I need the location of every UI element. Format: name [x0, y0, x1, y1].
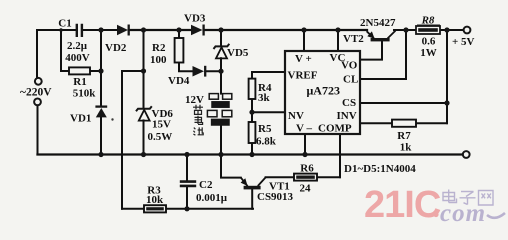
wire INV pin to R7 — [360, 122, 392, 124]
junction dots top rail — [59, 27, 449, 32]
svg-text:μA723: μA723 — [307, 84, 340, 98]
svg-text:VT2: VT2 — [343, 33, 364, 45]
svg-text:R7: R7 — [397, 130, 411, 142]
svg-text:VD5: VD5 — [227, 47, 249, 59]
svg-text:CS9013: CS9013 — [257, 191, 294, 203]
wire CL pin to R8 left — [360, 30, 406, 79]
svg-text:VD2: VD2 — [105, 42, 127, 54]
svg-text:2N5427: 2N5427 — [360, 17, 396, 29]
capacitor C2 — [180, 182, 196, 186]
svg-text:CS: CS — [342, 97, 356, 109]
resistor R7 — [392, 120, 416, 127]
svg-text:1W: 1W — [420, 47, 437, 59]
wire VD2 out down to VD6 — [143, 30, 145, 108]
resistor R6 — [294, 174, 317, 181]
resistor R8 — [416, 26, 440, 34]
svg-text:VD4: VD4 — [168, 75, 190, 87]
svg-text:C1: C1 — [58, 18, 71, 30]
wire R2 bottom to VD4 — [179, 63, 193, 72]
wire top rail segment left — [37, 29, 76, 31]
diode VD4 — [193, 66, 206, 77]
svg-text:R2: R2 — [152, 42, 166, 54]
wire C2 bottom lead — [186, 187, 188, 209]
wire CS pin — [360, 102, 447, 104]
wire VREF to R4 — [252, 72, 285, 79]
wire C2 top lead — [186, 155, 188, 181]
svg-text:R1: R1 — [73, 76, 86, 88]
zener diode VD6 — [136, 106, 152, 120]
capacitor C1 — [77, 24, 82, 37]
output terminal positive — [464, 27, 471, 34]
wire top rail after VD3 to VT2 emitter — [205, 29, 368, 31]
wire VD5 bottom lead — [220, 58, 222, 71]
wire battery top lead — [220, 71, 222, 93]
resistor R3 — [144, 205, 166, 212]
svg-text:21IC: 21IC — [364, 184, 441, 226]
wire VD5 top lead — [220, 30, 222, 46]
wire R1 right to node — [90, 70, 101, 72]
wire V- pin lead — [304, 134, 306, 155]
wire VD4 cathode to node — [207, 70, 222, 72]
wire R1 bypass left — [61, 30, 69, 71]
svg-text:0.5W: 0.5W — [148, 131, 173, 143]
diode VD3 — [191, 25, 204, 36]
svg-text:0.6: 0.6 — [422, 36, 436, 48]
resistor R1 — [69, 67, 90, 74]
zener diode VD5 — [214, 44, 230, 59]
wire lower R3 line — [122, 208, 144, 210]
wire node column x101 — [100, 30, 102, 106]
wire R8 to output terminal — [440, 29, 463, 31]
wire output sense vertical — [446, 30, 448, 123]
output terminal negative — [463, 151, 470, 158]
wire NV pin lead — [252, 111, 285, 113]
svg-text:6.8k: 6.8k — [256, 136, 277, 148]
svg-text:C2: C2 — [199, 179, 213, 191]
AC input terminal lower — [34, 99, 41, 106]
resistor R4 — [249, 79, 256, 99]
wire VT2 base lead — [360, 41, 382, 59]
svg-text:12V: 12V — [185, 94, 204, 106]
wire left input drop — [36, 30, 38, 78]
wire R4 to R5 column — [251, 99, 253, 122]
wire battery bottom lead — [220, 125, 222, 154]
svg-text:V +: V + — [295, 53, 312, 65]
wire top rail VT2 collector to R8 — [394, 29, 416, 31]
wire top rail after C1 — [82, 29, 117, 31]
svg-text:INV: INV — [337, 110, 357, 122]
battery GB 12V — [207, 94, 231, 125]
watermark dot — [433, 212, 438, 217]
wire V+ pin lead — [303, 30, 305, 51]
junction dots middle — [98, 68, 449, 211]
svg-text:R5: R5 — [258, 123, 272, 135]
svg-text:VO: VO — [341, 60, 358, 72]
wire VD1 cathode to bottom rail — [100, 118, 102, 155]
transistor VT1 CS9013 — [241, 177, 266, 189]
wire branch to R3 — [122, 71, 144, 209]
svg-text:COMP: COMP — [318, 123, 352, 135]
svg-text:VD1: VD1 — [70, 113, 91, 125]
AC input terminal upper — [35, 78, 42, 85]
svg-text:1k: 1k — [400, 142, 413, 154]
diode VD2 — [117, 25, 129, 36]
wire VT1 emitter branch — [221, 155, 241, 178]
resistor R2 — [175, 38, 184, 63]
wire lower terminal to bottom rail — [37, 105, 39, 154]
wire R2 top lead — [178, 30, 180, 38]
wire VD6 anode to bottom rail — [143, 120, 145, 154]
wire VT1 base lead — [251, 189, 253, 208]
wire bottom rail — [38, 153, 463, 155]
wire top rail after VD2 — [129, 29, 191, 31]
svg-text:15V: 15V — [152, 119, 171, 131]
wire R3 to VT1 base — [166, 208, 253, 210]
wire VT1 collector to R6 — [266, 176, 294, 178]
wire R6 to COMP — [317, 176, 340, 178]
wire COMP pin lead — [339, 134, 341, 177]
svg-text:D1~D5:1N4004: D1~D5:1N4004 — [344, 163, 416, 175]
svg-text:R6: R6 — [300, 163, 314, 175]
diode VD1 — [95, 107, 107, 118]
wire R7 to sense column — [416, 122, 447, 124]
svg-text:0.001μ: 0.001μ — [196, 192, 228, 204]
svg-text:100: 100 — [150, 54, 167, 66]
wire R5 bottom lead — [251, 143, 253, 155]
svg-text:+ 5V: + 5V — [452, 36, 475, 48]
svg-text:CL: CL — [343, 74, 358, 86]
resistor R5 — [249, 122, 256, 143]
svg-text:V –: V – — [296, 123, 312, 135]
svg-text:NV: NV — [288, 110, 304, 122]
regulator IC U1 uA723 — [285, 51, 360, 134]
svg-text:com: com — [440, 200, 486, 227]
svg-text:~220V: ~220V — [20, 87, 52, 99]
label battery chinese 蓄电池 — [193, 105, 203, 135]
junction dots bottom rail — [98, 152, 307, 157]
wire VC pin lead — [337, 30, 339, 51]
svg-text:VD3: VD3 — [184, 13, 206, 25]
scan speck near VD1 — [111, 118, 113, 120]
svg-text:510k: 510k — [73, 88, 97, 100]
watermark 电子网 — [443, 190, 493, 206]
svg-text:3k: 3k — [258, 92, 271, 104]
svg-text:24: 24 — [300, 183, 312, 195]
svg-text:10k: 10k — [146, 194, 164, 206]
svg-text:400V: 400V — [65, 52, 90, 64]
transistor VT2 2N5427 — [367, 31, 396, 42]
svg-text:VREF: VREF — [288, 70, 318, 82]
svg-text:2.2μ: 2.2μ — [67, 40, 88, 52]
